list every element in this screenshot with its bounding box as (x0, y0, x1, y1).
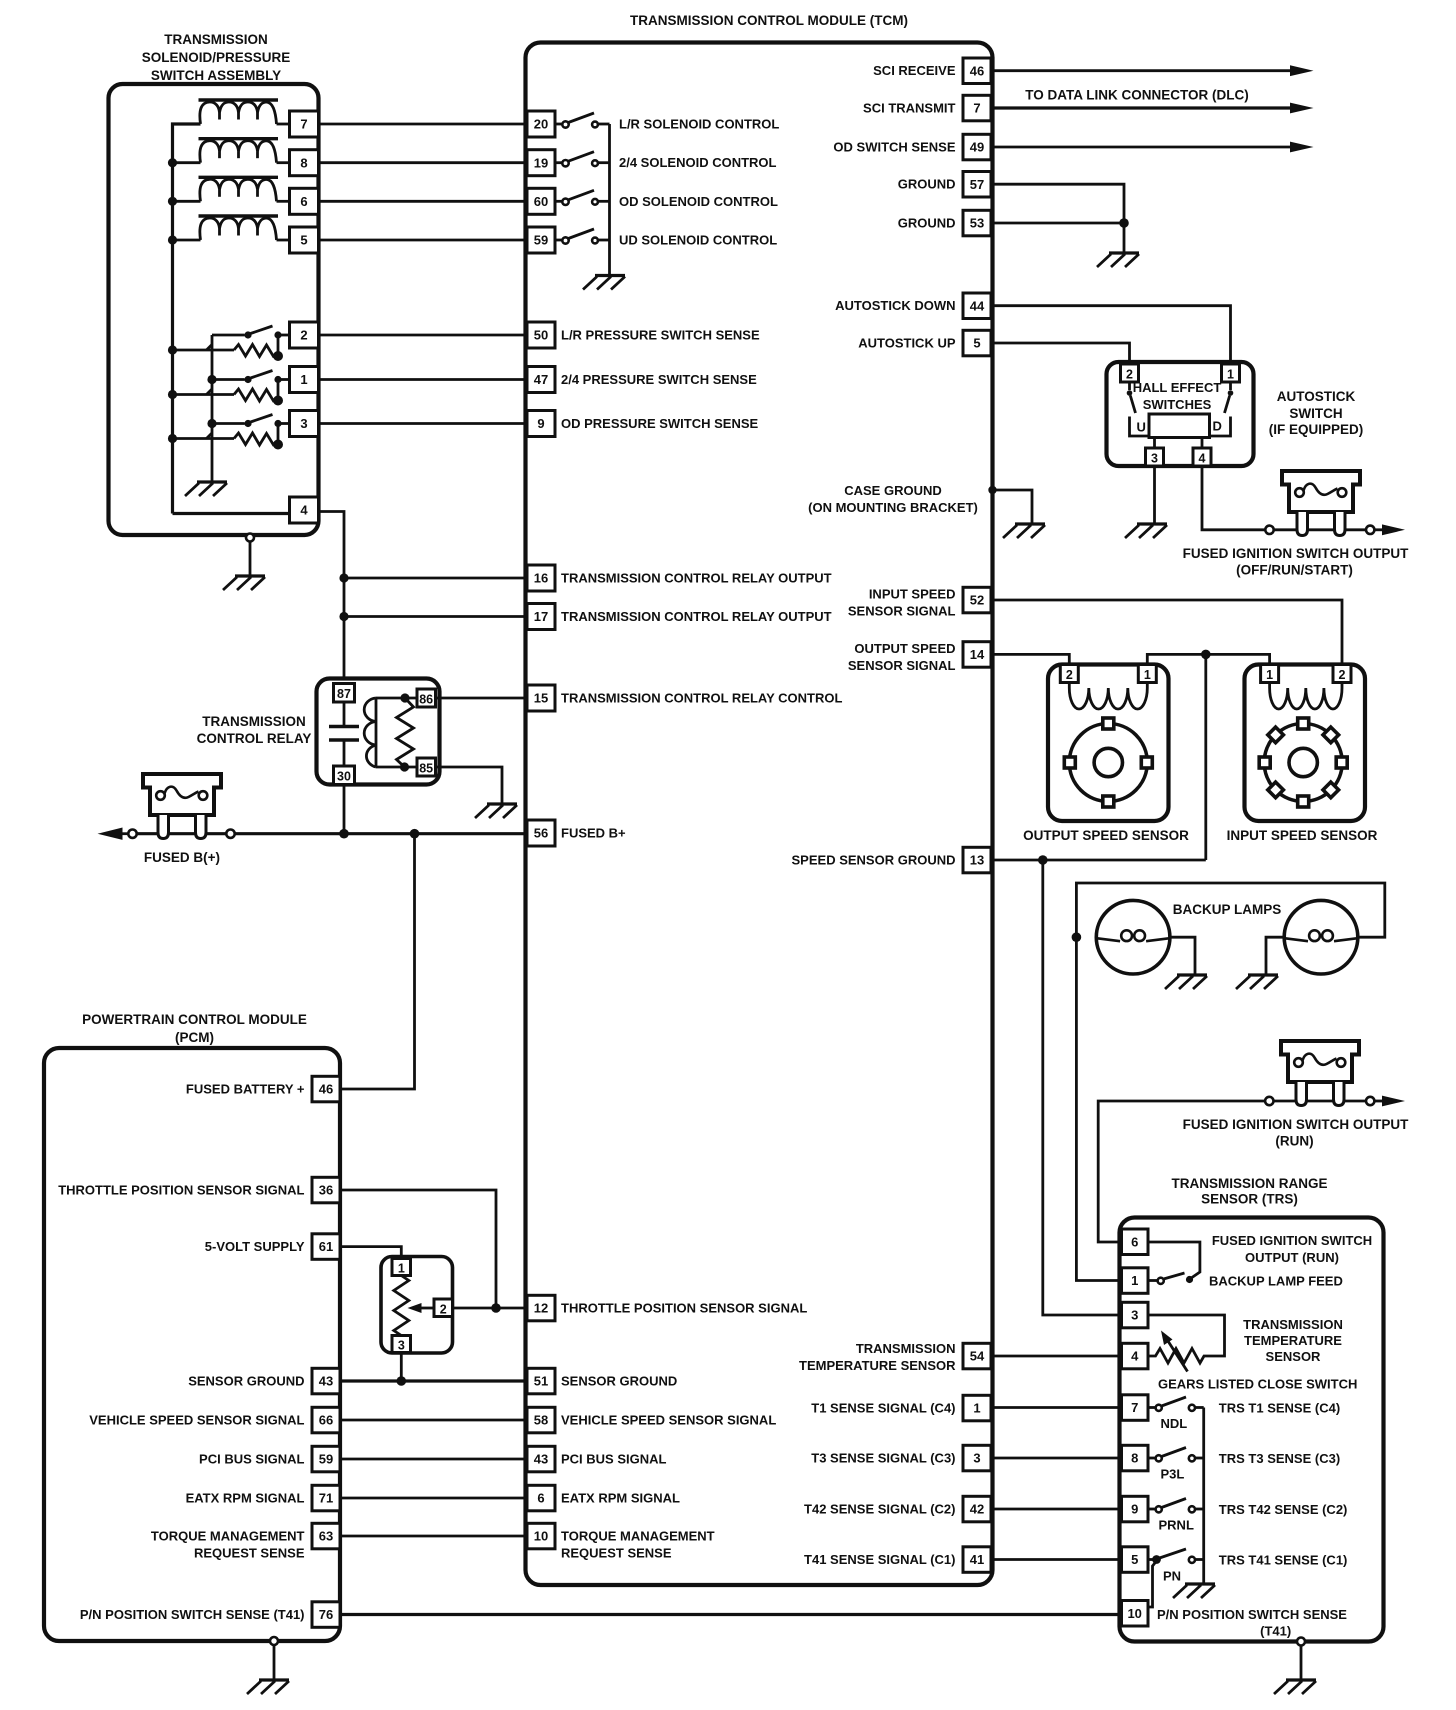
svg-text:1: 1 (1144, 668, 1151, 682)
TCM pin 49 (963, 134, 991, 160)
svg-text:FUSED IGNITION SWITCH OUTPUT: FUSED IGNITION SWITCH OUTPUT (1183, 546, 1409, 561)
svg-text:L/R PRESSURE SWITCH SENSE: L/R PRESSURE SWITCH SENSE (561, 328, 760, 343)
assembly box (109, 84, 319, 535)
svg-text:41: 41 (970, 1552, 984, 1567)
svg-text:FUSED IGNITION SWITCH OUTPUT: FUSED IGNITION SWITCH OUTPUT (1183, 1117, 1409, 1132)
svg-text:10: 10 (534, 1529, 548, 1544)
svg-text:TORQUE MANAGEMENT: TORQUE MANAGEMENT (151, 1529, 305, 1544)
TCM pin 41 (963, 1547, 991, 1573)
node circle (1366, 526, 1374, 534)
svg-text:FUSED IGNITION SWITCH: FUSED IGNITION SWITCH (1212, 1233, 1372, 1248)
2/4 solenoid driver switch (555, 152, 610, 163)
relay pin 30 (334, 766, 355, 785)
TCM pin 57 (963, 172, 991, 198)
svg-text:TRANSMISSION: TRANSMISSION (202, 714, 306, 729)
OD pressure switch SW3 (pin 3) (173, 415, 290, 446)
svg-text:1: 1 (973, 1401, 980, 1416)
svg-text:T1 SENSE SIGNAL (C4): T1 SENSE SIGNAL (C4) (811, 1401, 955, 1416)
svg-text:SENSOR SIGNAL: SENSOR SIGNAL (848, 658, 956, 673)
svg-text:SPEED SENSOR GROUND: SPEED SENSOR GROUND (792, 853, 956, 868)
svg-text:TRANSMISSION CONTROL RELAY CON: TRANSMISSION CONTROL RELAY CONTROL (561, 691, 843, 706)
svg-text:7: 7 (973, 101, 980, 116)
L/R pressure switch SW1 (pin 2) (173, 326, 290, 357)
output sensor pin 1 (1138, 665, 1156, 683)
solenoid coil L4 (pin 5) (173, 216, 290, 240)
node: TRS bottom ground circle (1297, 1638, 1305, 1646)
svg-text:1: 1 (398, 1261, 405, 1275)
junction: PCM 46 branch (410, 829, 420, 839)
svg-text:NDL: NDL (1161, 1416, 1188, 1431)
PCM pin 63 (312, 1523, 340, 1549)
svg-text:TRS T1 SENSE (C4): TRS T1 SENSE (C4) (1219, 1400, 1340, 1415)
svg-text:54: 54 (970, 1349, 985, 1364)
svg-text:TRANSMISSION CONTROL RELAY OUT: TRANSMISSION CONTROL RELAY OUTPUT (561, 571, 832, 586)
assembly pin 7 (290, 111, 319, 137)
svg-text:INPUT SPEED: INPUT SPEED (869, 587, 956, 602)
TCM box (526, 43, 993, 1586)
svg-text:1: 1 (1131, 1273, 1138, 1288)
TCM pin 60 (527, 188, 555, 214)
svg-text:61: 61 (319, 1239, 333, 1254)
svg-text:P3L: P3L (1161, 1467, 1185, 1482)
svg-text:86: 86 (419, 692, 433, 706)
svg-text:TEMPERATURE: TEMPERATURE (1244, 1333, 1342, 1348)
wire: B+ junction down to PCM pin 46 (341, 834, 415, 1089)
TCM pin 54 (963, 1343, 991, 1369)
svg-text:76: 76 (319, 1607, 333, 1622)
svg-text:30: 30 (337, 770, 351, 784)
wire: pin 52 to input sensor pin 2 (991, 600, 1342, 665)
svg-text:47: 47 (534, 372, 548, 387)
TCM pin 5 (963, 330, 991, 356)
input sensor tone wheel (1259, 718, 1347, 807)
TPS pin 1 (392, 1259, 411, 1276)
TRS pin 8 (1122, 1445, 1149, 1471)
hall pin 4 stub (1201, 438, 1204, 449)
TCM pin 43 (527, 1446, 555, 1472)
svg-text:58: 58 (534, 1413, 548, 1428)
ground (case) (1003, 524, 1045, 538)
svg-text:T42 SENSE SIGNAL (C2): T42 SENSE SIGNAL (C2) (804, 1502, 955, 1517)
svg-text:4: 4 (300, 503, 308, 518)
wire: pin 3 to TRS pin 8 (991, 1457, 1122, 1460)
svg-text:TRANSMISSION CONTROL MODULE (T: TRANSMISSION CONTROL MODULE (TCM) (630, 13, 908, 28)
TPS pin 3 (392, 1336, 411, 1353)
svg-text:T41 SENSE SIGNAL (C1): T41 SENSE SIGNAL (C1) (804, 1552, 955, 1567)
svg-text:EATX RPM SIGNAL: EATX RPM SIGNAL (186, 1491, 305, 1506)
PCM pin 59 (312, 1446, 340, 1472)
svg-text:1: 1 (1227, 367, 1234, 381)
output speed sensor box (1048, 665, 1169, 822)
PN switch (1148, 1549, 1204, 1560)
PCM pin 61 (312, 1234, 340, 1260)
svg-text:7: 7 (1131, 1400, 1138, 1415)
junction: sensor signal branch (1201, 650, 1211, 660)
wire: assembly pin 3 to TCM pin 9 (319, 422, 528, 425)
svg-text:46: 46 (319, 1082, 333, 1097)
TCM pin 7 (963, 95, 991, 121)
hall body rect (1149, 414, 1210, 438)
svg-text:52: 52 (970, 593, 984, 608)
relay coil (86-85) (364, 698, 417, 767)
svg-text:3: 3 (398, 1338, 405, 1352)
arrow: fused B+ off-page left (119, 832, 128, 835)
svg-text:3: 3 (1131, 1308, 1138, 1323)
svg-text:8: 8 (1131, 1451, 1138, 1466)
svg-text:UD SOLENOID CONTROL: UD SOLENOID CONTROL (619, 233, 777, 248)
wire: output sensor pin 1 to input sensor pin 1 (1147, 654, 1269, 664)
svg-text:(PCM): (PCM) (175, 1030, 214, 1045)
arrow: fused ignition run output (1374, 1100, 1385, 1103)
svg-text:OD PRESSURE SWITCH SENSE: OD PRESSURE SWITCH SENSE (561, 416, 759, 431)
junction: relay branch (339, 829, 349, 839)
UD solenoid driver switch (555, 229, 610, 240)
hall pin 1 (1222, 364, 1240, 382)
svg-text:U: U (1137, 420, 1146, 435)
backup lamp left (1096, 900, 1170, 974)
arrow: fused ignition output (1374, 528, 1385, 531)
ground (left lamp) (1165, 975, 1207, 989)
TCM pin 13 (963, 847, 991, 873)
node circle left of fuse (226, 830, 234, 838)
svg-text:6: 6 (537, 1491, 544, 1506)
wire: pin 57 ground (991, 184, 1124, 223)
TRS pin 4 (1122, 1343, 1149, 1369)
wire: assembly pin 5 to TCM pin 59 (319, 239, 528, 242)
TPS resistor element (394, 1276, 409, 1336)
svg-text:SENSOR (TRS): SENSOR (TRS) (1201, 1192, 1298, 1207)
svg-text:20: 20 (534, 117, 548, 132)
svg-text:9: 9 (1131, 1502, 1138, 1517)
ground (hall 3) (1125, 524, 1167, 538)
wire: pin 5 to hall pin 2 (991, 343, 1130, 364)
svg-text:FUSED B(+): FUSED B(+) (144, 850, 220, 865)
svg-text:2/4 SOLENOID CONTROL: 2/4 SOLENOID CONTROL (619, 155, 777, 170)
svg-text:SCI TRANSMIT: SCI TRANSMIT (863, 101, 956, 116)
wire: relay 87/30 branch down to fused B+ line (343, 785, 346, 834)
ground (TCM 57/53) (1097, 253, 1139, 267)
fuse (ignition off/run/start) (1282, 471, 1360, 536)
assembly pin 2 (290, 322, 319, 348)
svg-text:FUSED BATTERY +: FUSED BATTERY + (186, 1082, 305, 1097)
wire: run feed to TRS pin 6 (1098, 1101, 1265, 1242)
2/4 pressure switch SW2 (pin 1) (173, 371, 290, 402)
svg-text:T3 SENSE SIGNAL (C3): T3 SENSE SIGNAL (C3) (811, 1451, 955, 1466)
wire: pin 42 to TRS pin 9 (991, 1508, 1122, 1511)
wire: pin 44 to hall pin 1 (991, 306, 1231, 364)
TRS pin 7 (1122, 1395, 1149, 1421)
TRS pin 3 (1122, 1302, 1149, 1328)
wire: right lamp to ground (1266, 937, 1284, 974)
svg-text:56: 56 (534, 826, 548, 841)
svg-text:L/R SOLENOID CONTROL: L/R SOLENOID CONTROL (619, 117, 779, 132)
svg-text:OUTPUT (RUN): OUTPUT (RUN) (1245, 1250, 1339, 1265)
assembly pin 6 (290, 188, 319, 214)
wire under fuse (1274, 528, 1366, 531)
svg-text:GEARS LISTED CLOSE SWITCH: GEARS LISTED CLOSE SWITCH (1158, 1377, 1357, 1392)
svg-text:3: 3 (1151, 451, 1158, 465)
wire: assembly pin 2 to TCM pin 50 (319, 334, 528, 337)
wire: PCM 66 to TCM 58 (340, 1419, 527, 1422)
ground (TRS rail) (1173, 1584, 1215, 1598)
hall effect box (1107, 362, 1254, 466)
solenoid driver ground rail (608, 124, 611, 274)
TCM pin 3 (963, 1445, 991, 1471)
TCM pin 51 (527, 1368, 555, 1394)
svg-text:44: 44 (970, 298, 985, 313)
assembly pin 3 (290, 411, 319, 437)
ground (TRS bottom) (1274, 1680, 1316, 1694)
TCM pin 46 (963, 58, 991, 84)
svg-text:50: 50 (534, 328, 548, 343)
svg-text:7: 7 (300, 117, 307, 132)
junction: backup lamp branch (1038, 855, 1048, 865)
PCM pin 46 (312, 1076, 340, 1102)
wire: assembly pin 7 to TCM pin 20 (319, 123, 528, 126)
output sensor pickup coil (1069, 683, 1147, 710)
solenoid coil L2 (pin 8) (173, 139, 290, 163)
svg-text:10: 10 (1127, 1606, 1141, 1621)
TCM pin 47 (527, 367, 555, 393)
fuse (ignition run) (1281, 1041, 1359, 1106)
ground (below assembly) (223, 576, 265, 590)
bus junction dots (168, 158, 177, 167)
svg-text:87: 87 (337, 687, 351, 701)
ground (relay 85) (475, 804, 517, 818)
wire: pin 1 to TRS pin 7 (991, 1406, 1122, 1409)
svg-text:REQUEST SENSE: REQUEST SENSE (194, 1546, 305, 1561)
svg-text:(T41): (T41) (1260, 1624, 1291, 1639)
TCM pin 52 (963, 587, 991, 613)
TCM pin 42 (963, 1496, 991, 1522)
wire: PCM 63 to TCM 10 (340, 1535, 527, 1538)
svg-text:PN: PN (1163, 1569, 1181, 1584)
node circle (1265, 1097, 1273, 1105)
svg-text:SWITCHES: SWITCHES (1143, 397, 1212, 412)
svg-text:POWERTRAIN CONTROL MODULE: POWERTRAIN CONTROL MODULE (82, 1012, 307, 1027)
wire: TCM pin 16 to relay branch (344, 577, 527, 580)
svg-text:AUTOSTICK: AUTOSTICK (1277, 389, 1356, 404)
svg-text:AUTOSTICK UP: AUTOSTICK UP (858, 336, 956, 351)
TRS pin 1 (1122, 1268, 1149, 1294)
hall pin 3 stub (1153, 438, 1156, 449)
svg-text:VEHICLE SPEED SENSOR SIGNAL: VEHICLE SPEED SENSOR SIGNAL (89, 1413, 304, 1428)
wire: down to ground (1123, 223, 1126, 252)
TCM pin 6 (527, 1485, 555, 1511)
svg-text:2: 2 (440, 1302, 447, 1316)
svg-text:2: 2 (300, 328, 307, 343)
svg-text:TRANSMISSION: TRANSMISSION (164, 32, 268, 47)
junction: pin4 wire / pin17 wire (339, 612, 348, 621)
svg-text:(OFF/RUN/START): (OFF/RUN/START) (1236, 563, 1353, 578)
svg-text:PRNL: PRNL (1159, 1518, 1194, 1533)
TCM pin 14 (963, 642, 991, 668)
svg-text:SENSOR GROUND: SENSOR GROUND (188, 1374, 304, 1389)
svg-text:GROUND: GROUND (898, 177, 956, 192)
svg-text:SWITCH: SWITCH (1289, 406, 1342, 421)
svg-text:PCI BUS SIGNAL: PCI BUS SIGNAL (561, 1452, 667, 1467)
wire: pin 14 to output sensor pin 2 (991, 654, 1069, 664)
TRS switch common rail (1202, 1408, 1205, 1584)
junction: left lamp terminal (1072, 932, 1082, 942)
svg-text:OD SOLENOID CONTROL: OD SOLENOID CONTROL (619, 194, 778, 209)
svg-text:46: 46 (970, 63, 984, 78)
TCM pin 9 (527, 411, 555, 437)
wire: SCI receive to DLC (991, 69, 1292, 72)
wire: TPS pin 2 to TCM pin 12 (453, 1307, 528, 1310)
PRNL switch (1148, 1499, 1204, 1510)
fuse (B+) (143, 774, 221, 839)
input speed sensor box (1245, 665, 1366, 822)
PCM pin 43 (312, 1368, 340, 1394)
backup lamp feed switch (1148, 1273, 1185, 1281)
svg-text:57: 57 (970, 177, 984, 192)
svg-text:36: 36 (319, 1183, 333, 1198)
junction: pin4 wire / pin16 wire (339, 573, 348, 582)
case ground label (808, 483, 978, 515)
TCM pin 17 (527, 604, 555, 630)
svg-text:59: 59 (534, 233, 548, 248)
svg-text:4: 4 (1131, 1349, 1139, 1364)
svg-text:49: 49 (970, 140, 984, 155)
svg-text:4: 4 (1199, 451, 1206, 465)
OD solenoid driver switch (555, 190, 610, 201)
TCM pin 20 (527, 111, 555, 137)
svg-text:TORQUE MANAGEMENT: TORQUE MANAGEMENT (561, 1529, 715, 1544)
wire: pin 53 ground (991, 222, 1124, 225)
TCM pin 44 (963, 293, 991, 319)
TPS wiper arrow (419, 1307, 434, 1310)
svg-text:EATX RPM SIGNAL: EATX RPM SIGNAL (561, 1491, 680, 1506)
solenoid common bus wire (173, 124, 201, 514)
svg-text:THROTTLE POSITION SENSOR SIGNA: THROTTLE POSITION SENSOR SIGNAL (561, 1301, 807, 1316)
svg-text:66: 66 (319, 1413, 333, 1428)
P3L switch (1148, 1448, 1204, 1459)
wire: assembly pin 1 to TCM pin 47 (319, 378, 528, 381)
wire: PCM 59 to TCM 43 (340, 1458, 527, 1461)
TPS pin 2 (wiper) (434, 1299, 453, 1317)
svg-text:6: 6 (1131, 1234, 1138, 1249)
svg-text:TRANSMISSION: TRANSMISSION (1243, 1317, 1343, 1332)
ground (PCM) (247, 1680, 289, 1694)
svg-text:TRANSMISSION RANGE: TRANSMISSION RANGE (1171, 1176, 1327, 1191)
wire: hall pin 3 to ground (1153, 466, 1156, 523)
relay pin 87 (334, 684, 355, 703)
PCM title (82, 1012, 307, 1045)
node: PCM bottom ground circle (270, 1637, 278, 1645)
wire under fuse (1274, 1100, 1367, 1103)
svg-text:13: 13 (970, 853, 984, 868)
ground (solenoid drivers) (583, 276, 625, 290)
assembly pin 8 (290, 150, 319, 176)
svg-text:53: 53 (970, 216, 984, 231)
wire: OD switch sense to DLC (991, 146, 1292, 149)
junction: TPS ground (397, 1376, 407, 1386)
svg-text:51: 51 (534, 1374, 548, 1389)
svg-text:43: 43 (319, 1374, 333, 1389)
TRS pin 10 (1122, 1601, 1149, 1627)
run output label (1183, 1117, 1409, 1149)
svg-text:2: 2 (1339, 668, 1346, 682)
wire: TRS case to ground (1300, 1646, 1303, 1680)
wire: SCI transmit to DLC (991, 106, 1292, 109)
svg-text:3: 3 (973, 1451, 980, 1466)
svg-text:5: 5 (1131, 1552, 1138, 1567)
svg-text:BACKUP LAMPS: BACKUP LAMPS (1173, 902, 1282, 917)
wire: assembly pin 8 to TCM pin 19 (319, 161, 528, 164)
transmission temperature sensor thermistor (1148, 1315, 1225, 1372)
PCM pin 76 (312, 1602, 340, 1628)
NDL switch (1148, 1397, 1204, 1408)
svg-text:CASE GROUND: CASE GROUND (844, 483, 942, 498)
svg-text:43: 43 (534, 1452, 548, 1467)
relay pin 85 (417, 758, 436, 776)
assembly pin 1 (290, 367, 319, 393)
node circle (1265, 526, 1273, 534)
PCM pin 66 (312, 1407, 340, 1433)
wire: TPS pin 3 down to sensor ground wire (400, 1353, 403, 1382)
svg-text:TRS T42 SENSE (C2): TRS T42 SENSE (C2) (1219, 1502, 1348, 1517)
output sensor pin 2 (1060, 665, 1078, 683)
svg-text:5: 5 (973, 336, 980, 351)
wire: down to TRS pin 3 (1043, 860, 1122, 1315)
hall pin 2 (1121, 364, 1139, 382)
TCM pin 12 (527, 1295, 555, 1321)
svg-text:42: 42 (970, 1502, 984, 1517)
input sensor pin 2 (1333, 665, 1351, 683)
svg-text:12: 12 (534, 1301, 548, 1316)
svg-text:GROUND: GROUND (898, 216, 956, 231)
svg-text:P/N POSITION SWITCH SENSE: P/N POSITION SWITCH SENSE (1157, 1607, 1347, 1622)
wire: TRS pin 6 to backup feed switch (1148, 1242, 1200, 1279)
wire: PCM 61 to TPS pin 1 (340, 1247, 401, 1259)
svg-text:3: 3 (300, 416, 307, 431)
relay pin 86 (417, 689, 436, 707)
svg-text:INPUT SPEED SENSOR: INPUT SPEED SENSOR (1227, 828, 1378, 843)
svg-text:(RUN): (RUN) (1275, 1134, 1313, 1149)
node: case ground on TCM edge (988, 486, 996, 494)
assembly title (142, 32, 291, 83)
svg-text:8: 8 (300, 155, 307, 170)
svg-text:71: 71 (319, 1491, 333, 1506)
svg-text:SOLENOID/PRESSURE: SOLENOID/PRESSURE (142, 50, 291, 65)
hall D switch (1210, 382, 1231, 436)
TPS box (381, 1257, 453, 1354)
ground (right lamp) (1236, 975, 1278, 989)
svg-text:9: 9 (537, 416, 544, 431)
wire: left lamp to ground (1170, 937, 1195, 974)
wire: PCM case to ground (273, 1645, 276, 1679)
svg-text:OD SWITCH SENSE: OD SWITCH SENSE (833, 140, 955, 155)
svg-text:2/4 PRESSURE SWITCH SENSE: 2/4 PRESSURE SWITCH SENSE (561, 372, 757, 387)
node circle right of arrow (128, 830, 136, 838)
wire: assembly pin 4 right lead down to relay branch (319, 512, 345, 679)
svg-text:15: 15 (534, 691, 548, 706)
wire: bus bottom to assembly pin 4 (173, 512, 290, 515)
ground (pressure switch rail) (185, 482, 227, 496)
TCM pin 56 (527, 820, 555, 846)
TCM pin 15 (527, 685, 555, 711)
wire: backup lamp loop top (1076, 883, 1384, 937)
wire: PCM 36 to TPS wiper node (340, 1190, 496, 1308)
wire: fused B+ line (137, 832, 528, 835)
TCM pin 16 (527, 565, 555, 591)
PCM pin 36 (312, 1177, 340, 1203)
svg-text:AUTOSTICK DOWN: AUTOSTICK DOWN (835, 298, 955, 313)
svg-text:HALL EFFECT: HALL EFFECT (1133, 380, 1222, 395)
relay contact (87-30) capacitor-style plates (329, 702, 359, 766)
TCM pin 10 (527, 1523, 555, 1549)
